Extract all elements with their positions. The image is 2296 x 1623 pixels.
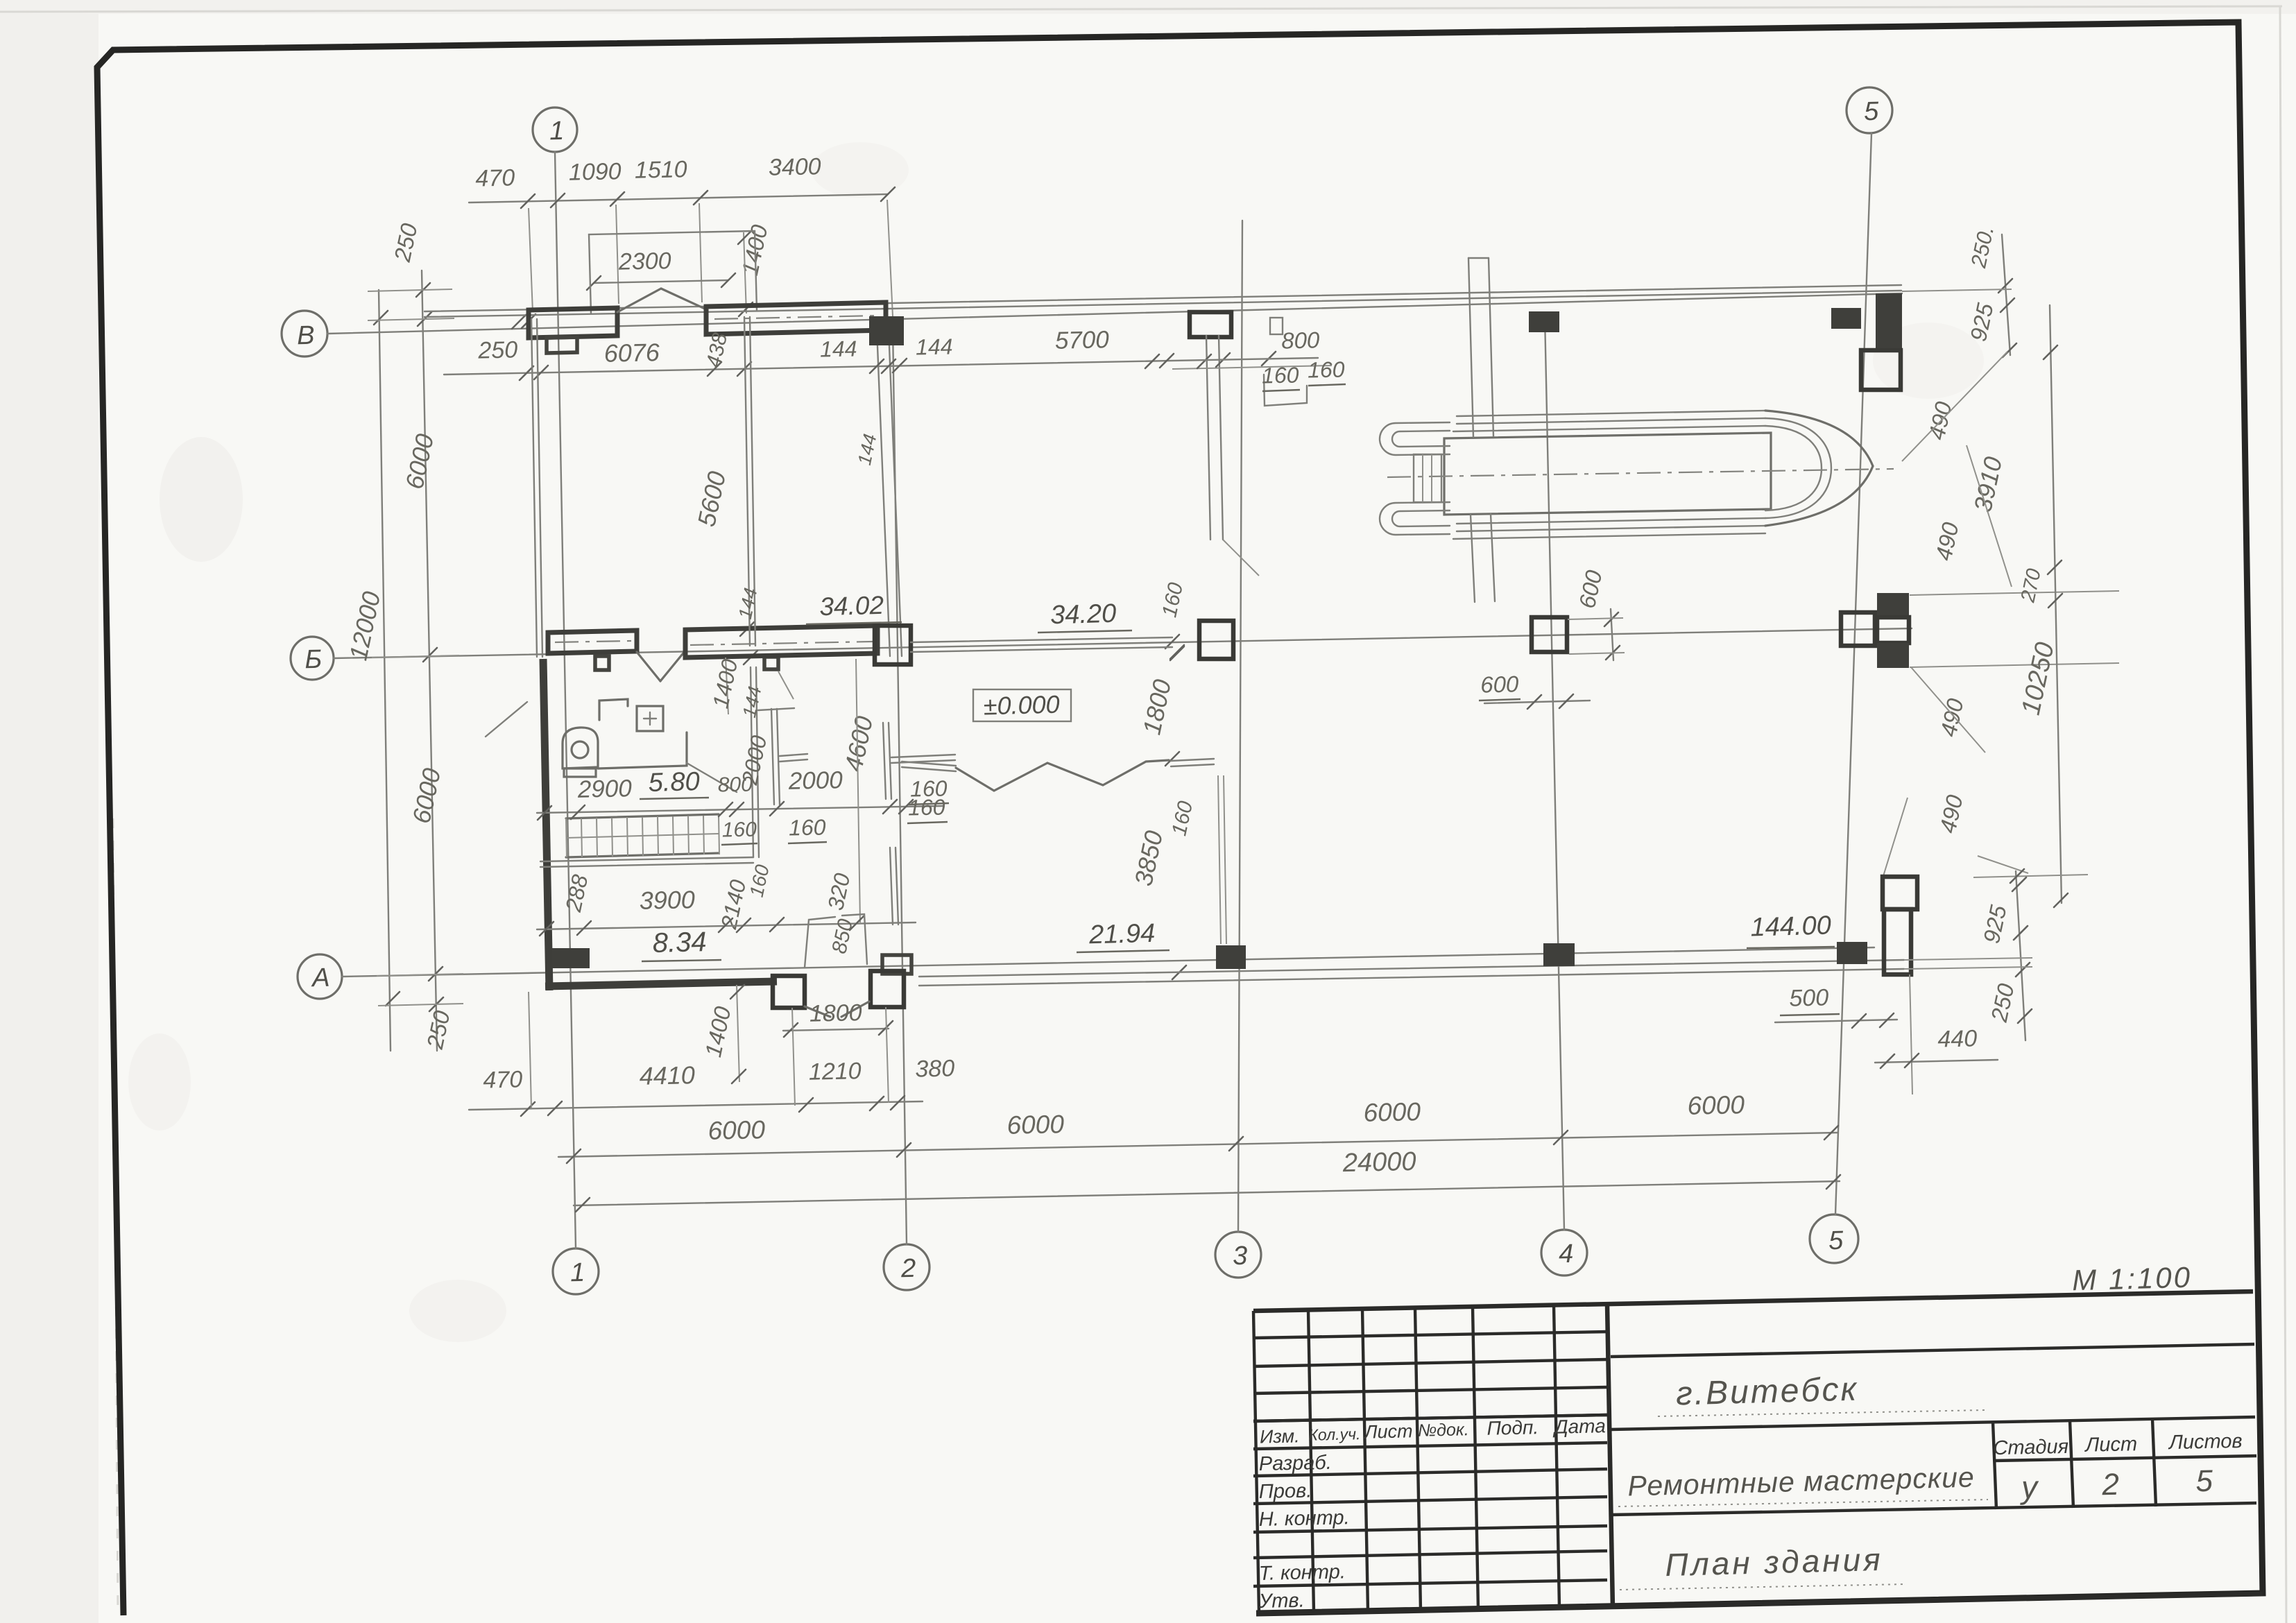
- right leader diagonals upper: [1902, 352, 2007, 461]
- axis circle 5 top: [1847, 87, 1892, 133]
- entrance door swing: [617, 289, 661, 312]
- leader line from Б wall: [486, 702, 527, 737]
- bar left of zigzag: [902, 762, 956, 766]
- А-5 corner: outlined pier lower: [1884, 909, 1911, 974]
- wall Б: pendant square below door: [595, 656, 609, 670]
- dim 800/160/160 at axis 3 door: [1172, 366, 1332, 369]
- column axis 2 at А (hollow above line): [882, 955, 911, 974]
- svg-text:3900: 3900: [639, 885, 695, 915]
- dim 1800 door bottom: [783, 1029, 889, 1031]
- machine: upper fork: [1380, 422, 1450, 455]
- equipment: counter polyline: [599, 699, 628, 720]
- svg-text:Пров.: Пров.: [1258, 1479, 1312, 1503]
- svg-text:Т. контр.: Т. контр.: [1258, 1561, 1346, 1585]
- axis circle 2 bottom: [884, 1244, 929, 1290]
- machine: envelope bottom line 1: [1457, 518, 1765, 524]
- title block: header row emphasis line: [1253, 1415, 1607, 1421]
- svg-text:24000: 24000: [1342, 1147, 1416, 1178]
- svg-text:Листов: Листов: [2168, 1430, 2243, 1454]
- svg-text:2300: 2300: [618, 248, 672, 275]
- svg-text:6000: 6000: [708, 1115, 766, 1145]
- left wall upper (thin, B to Б): [531, 319, 537, 657]
- top dim extension verticals: [529, 208, 533, 312]
- dim 500 at А-5: [1775, 1020, 1897, 1022]
- svg-text:144: 144: [820, 336, 857, 361]
- dim 1400 porch vertical: [737, 985, 739, 1082]
- paper top edge (scan artifact): [0, 6, 2282, 12]
- svg-text:6000: 6000: [1363, 1097, 1421, 1127]
- title block: stage-block left vertical: [1993, 1422, 1996, 1509]
- svg-text:250: 250: [477, 336, 518, 363]
- svg-text:М 1:100: М 1:100: [2072, 1261, 2193, 1297]
- svg-text:21.94: 21.94: [1088, 919, 1156, 950]
- left dim line 12000: [379, 290, 391, 1051]
- machine: cap arc inner: [1765, 426, 1822, 510]
- column axis 2 at А (outlined on line): [871, 971, 904, 1007]
- axis line B horizontal: [327, 293, 1902, 334]
- machine: envelope bottom line 3: [1453, 533, 1765, 539]
- svg-text:1210: 1210: [809, 1058, 862, 1085]
- dim 440 at А-5: [1875, 1060, 1998, 1063]
- svg-text:144.00: 144.00: [1750, 911, 1831, 942]
- paper fold line left (scan artifact): [113, 818, 118, 1617]
- scan mottle blobs: [160, 437, 243, 562]
- dim row 2900/800/2000: [537, 806, 943, 813]
- title block: outer top line: [1253, 1291, 2253, 1311]
- svg-text:Лист: Лист: [1363, 1420, 1413, 1442]
- entrance canopy: [589, 231, 757, 314]
- porch step block at А (outlined): [773, 976, 805, 1008]
- column axis 3 at А: [1216, 945, 1246, 969]
- svg-text:5: 5: [1828, 1226, 1844, 1255]
- wall Б: pendant square near partition: [764, 657, 778, 669]
- svg-text:1: 1: [549, 117, 565, 146]
- extension leaders from Б-5 pier: [1910, 591, 2119, 595]
- svg-text:160: 160: [721, 818, 757, 841]
- right dim line 3910/10250: [2050, 305, 2062, 903]
- column axis 4 at B: [1529, 311, 1559, 332]
- wall axis B: masonry bar left of entrance: [529, 308, 617, 338]
- svg-text:440: 440: [1937, 1025, 1978, 1052]
- svg-text:470: 470: [475, 164, 515, 191]
- svg-text:№док.: №док.: [1418, 1420, 1469, 1441]
- dim line 4600 vertical: [856, 659, 860, 922]
- machine: pointed tip upper: [1765, 411, 1873, 466]
- dim 2300 over entrance: [594, 280, 728, 283]
- title block: left table row lines: [1253, 1332, 1607, 1338]
- wall on axis 2 between B and Б: [877, 329, 890, 656]
- pier stack right of axis 5 at Б: [1877, 593, 1909, 617]
- svg-text:А: А: [311, 963, 330, 993]
- svg-text:Дата: Дата: [1552, 1415, 1607, 1438]
- А-5 corner: outlined pier upper: [1883, 877, 1917, 909]
- axis circle Б left: [291, 637, 334, 680]
- dim 925/250 right lower column: [2016, 871, 2025, 1040]
- wall axis B: double face lines: [425, 285, 1901, 311]
- title block: stage-block header underline: [1994, 1456, 2256, 1461]
- column on А near 144.00: [1837, 942, 1867, 964]
- wall axis B: masonry bar right of entrance: [706, 302, 886, 334]
- level box ±0.000: [973, 689, 1071, 721]
- svg-text:380: 380: [915, 1055, 955, 1082]
- svg-text:Н. контр.: Н. контр.: [1258, 1506, 1350, 1531]
- svg-text:5700: 5700: [1054, 326, 1109, 354]
- wall axis А: double face lines right part: [919, 960, 1904, 977]
- svg-text:34.20: 34.20: [1050, 599, 1117, 630]
- column axis 4 at А: [1543, 943, 1575, 966]
- machine: vertical channel above: [1468, 258, 1473, 437]
- leader from partition end: [1223, 540, 1259, 576]
- svg-text:г.Витебск: г.Витебск: [1675, 1371, 1858, 1413]
- title block: left table verticals: [1253, 1311, 1259, 1613]
- door detail at А: [805, 917, 835, 968]
- svg-text:160: 160: [789, 814, 826, 840]
- svg-text:5.80: 5.80: [648, 767, 700, 798]
- extension from B wall to right dims: [1902, 289, 2012, 291]
- svg-text:Подп.: Подп.: [1487, 1416, 1539, 1439]
- svg-text:2000: 2000: [787, 766, 843, 795]
- svg-text:34.02: 34.02: [819, 591, 884, 621]
- axis circle 1 bottom: [553, 1248, 599, 1294]
- svg-text:6000: 6000: [1006, 1110, 1065, 1140]
- svg-text:160: 160: [1262, 362, 1299, 388]
- axis line 1 vertical: [555, 152, 576, 1248]
- svg-text:500: 500: [1789, 984, 1829, 1011]
- wall axis B: small pendant pier: [547, 337, 577, 353]
- door jamb line below Б door: [726, 658, 728, 714]
- axis line Б horizontal: [334, 628, 1912, 658]
- axis circle 4 bottom: [1541, 1230, 1587, 1276]
- door jamb step below B right of axis 3: [1264, 375, 1307, 406]
- partition wall x~1086 (lower, stair hall): [751, 667, 753, 857]
- svg-text:В: В: [297, 321, 315, 351]
- partition for 800 door below B at axis 3: [1206, 336, 1210, 540]
- paper right edge (scan artifact): [2280, 6, 2286, 1623]
- column axis 2 at B: [869, 316, 904, 345]
- column axis 3 at B: [1190, 312, 1231, 337]
- door swing at А: [805, 1006, 830, 1017]
- axis circle 3 bottom: [1215, 1232, 1261, 1278]
- svg-text:1510: 1510: [635, 156, 688, 184]
- svg-text:1: 1: [570, 1258, 585, 1287]
- WC partition: [771, 709, 774, 805]
- svg-text:160: 160: [908, 794, 945, 820]
- svg-text:Утв.: Утв.: [1258, 1590, 1305, 1613]
- title block: right section line under top strip: [1611, 1344, 2254, 1357]
- svg-text:±0.000: ±0.000: [983, 690, 1060, 721]
- dim row 470/4410/1210/380 bottom: [469, 1101, 923, 1110]
- svg-text:144: 144: [916, 334, 953, 359]
- extension below corner pier: [1910, 974, 1912, 1094]
- extension verticals to bottom rows: [529, 992, 531, 1108]
- axis circle А left: [298, 954, 342, 999]
- wall Б: double thin 2-3: [911, 637, 1172, 642]
- svg-text:160: 160: [1308, 357, 1345, 382]
- partition tee arm: [891, 755, 955, 757]
- stair flight: [566, 814, 719, 818]
- svg-text:800: 800: [1281, 327, 1320, 353]
- axis circle 5 bottom: [1810, 1214, 1858, 1263]
- dim 600 column axis 4 vertical: [1611, 609, 1613, 660]
- axis line 5 vertical: [1835, 133, 1871, 1214]
- partition wall x~1078 (upper): [744, 317, 750, 646]
- svg-text:2: 2: [2101, 1468, 2120, 1502]
- svg-text:Изм.: Изм.: [1260, 1425, 1300, 1447]
- axis line А horizontal: [342, 947, 1874, 977]
- title block: big divider vertical: [1607, 1305, 1613, 1609]
- wall Б: masonry bar to axis 2 (outlined): [685, 626, 877, 658]
- partition axis2 below Б (lower): [890, 848, 893, 925]
- machine: ladder between forks: [1414, 454, 1441, 502]
- title block: stage-block divider 2: [2152, 1419, 2156, 1506]
- machine: envelope top line 3: [1453, 426, 1765, 431]
- svg-text:470: 470: [483, 1066, 523, 1093]
- axis circle 1 top: [533, 108, 577, 152]
- svg-text:5: 5: [2195, 1464, 2213, 1499]
- title block: line under object name row: [1611, 1503, 2256, 1515]
- partition stub above axis-3 А column: [1218, 775, 1221, 944]
- machine: vertical channel below: [1471, 515, 1475, 602]
- left wall lower (thick, Б to А): [543, 659, 549, 990]
- dim row 24000: [574, 1181, 1840, 1205]
- left dim extension stubs: [368, 318, 454, 320]
- partition axis2 below Б (upper): [883, 723, 886, 799]
- dim row 250/6076/438/144/144/5700: [444, 358, 1318, 375]
- column axis 4 at Б: [1532, 617, 1567, 652]
- column axis 2 at Б: [875, 626, 911, 664]
- dim row 6000 x4: [558, 1133, 1837, 1157]
- svg-text:Разраб.: Разраб.: [1258, 1452, 1332, 1475]
- wall Б: masonry bar left segment: [548, 630, 637, 653]
- tick on А line: [1172, 965, 1186, 979]
- svg-text:1800: 1800: [809, 999, 863, 1027]
- corner pier axis 5 at B: [1876, 293, 1902, 348]
- title block: line under city row: [1611, 1417, 2255, 1429]
- column axis 5 at Б: [1841, 612, 1875, 646]
- wall axis B: bar centerline: [714, 316, 877, 319]
- svg-text:5: 5: [1864, 97, 1880, 126]
- machine: pointed tip lower: [1765, 466, 1873, 526]
- svg-text:3400: 3400: [769, 153, 822, 181]
- wall Б: bar centerline: [690, 642, 873, 645]
- door swing at Б: [637, 652, 660, 681]
- column axis 3 at Б: [1199, 621, 1233, 659]
- axis line 3 vertical: [1238, 221, 1242, 1232]
- bottom wall А (thick) left room: [545, 981, 777, 986]
- svg-text:3: 3: [1233, 1242, 1248, 1271]
- right dim line 925/250 upper: [2002, 234, 2010, 355]
- svg-text:Б: Б: [305, 645, 323, 675]
- svg-text:6076: 6076: [603, 338, 660, 368]
- svg-text:6000: 6000: [1687, 1090, 1745, 1120]
- machine: envelope top line 2: [1457, 418, 1765, 424]
- corridor wall below stairs: [540, 857, 753, 861]
- title block: bottom line: [1256, 1594, 2263, 1613]
- svg-text:2900: 2900: [576, 775, 632, 803]
- equipment: machine with circle: [563, 728, 598, 768]
- dim 600 column axis 4 horizontal: [1484, 701, 1590, 703]
- svg-text:План здания: План здания: [1665, 1541, 1884, 1583]
- svg-text:Стадия: Стадия: [1993, 1436, 2068, 1459]
- inner corner pier bottom-left: [552, 948, 590, 968]
- left margin shading (scan artifact): [0, 0, 98, 1623]
- axis line 4 vertical: [1545, 316, 1564, 1230]
- svg-text:у: у: [2019, 1469, 2040, 1506]
- svg-text:4: 4: [1559, 1239, 1574, 1269]
- svg-text:8.34: 8.34: [652, 927, 707, 959]
- extension to 925 line top: [1973, 875, 2088, 877]
- svg-text:600: 600: [1480, 671, 1519, 697]
- machine: lower fork: [1380, 502, 1450, 535]
- stair walk line: [566, 834, 719, 838]
- dim row 288/3900: [537, 922, 916, 929]
- svg-text:Кол.уч.: Кол.уч.: [1308, 1425, 1361, 1444]
- title block: stage-block divider 1: [2070, 1420, 2073, 1508]
- svg-text:4410: 4410: [639, 1060, 695, 1090]
- machine: envelope top line 1: [1457, 411, 1765, 416]
- top dim row 470/1090/1510/3400: [469, 194, 888, 203]
- machine: bed rectangle: [1444, 433, 1771, 515]
- svg-text:Лист: Лист: [2084, 1433, 2137, 1457]
- axis circle B left: [282, 311, 327, 357]
- bar right of zigzag: [1171, 759, 1214, 761]
- zigzag break line: [956, 760, 1169, 791]
- machine: envelope bottom line 2: [1457, 526, 1765, 531]
- left dim line 250/6000/6000/250: [422, 270, 437, 1051]
- machine: centerline: [1387, 469, 1894, 477]
- axis line 2 vertical: [893, 326, 907, 1244]
- svg-text:1090: 1090: [569, 158, 622, 186]
- machine: cap arc outer: [1765, 418, 1831, 518]
- column near axis 5 at B: [1831, 308, 1861, 329]
- А line right extension: [1904, 958, 2032, 960]
- svg-text:2: 2: [900, 1254, 916, 1283]
- equipment: box with cross: [637, 706, 663, 731]
